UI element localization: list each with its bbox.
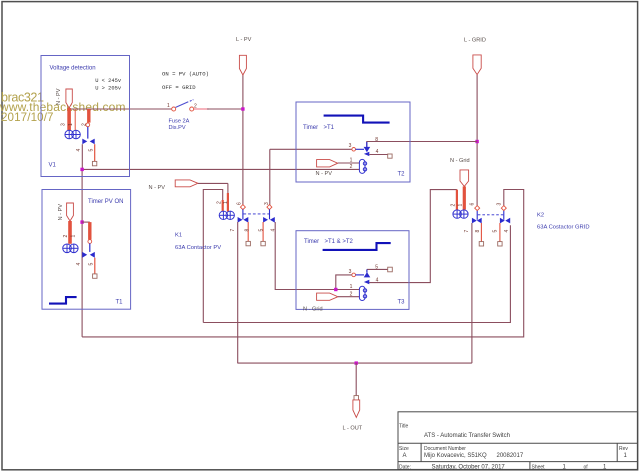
K1 linkage dashed bbox=[243, 213, 269, 215]
svg-text:6: 6 bbox=[237, 202, 243, 205]
svg-text:>T1: >T1 bbox=[324, 125, 335, 131]
junction T3 pin1 bbox=[334, 288, 337, 291]
flag T3 N-Grid bbox=[317, 293, 338, 300]
svg-text:3: 3 bbox=[264, 202, 270, 205]
T1 flag lead bbox=[68, 221, 72, 244]
svg-text:L - OUT: L - OUT bbox=[343, 426, 363, 432]
svg-text:Voltage detection: Voltage detection bbox=[50, 66, 96, 72]
V1 contact circle bbox=[86, 123, 90, 127]
K2 coil pin2 bright lead bbox=[456, 190, 458, 210]
T3 pin 5 stem bbox=[366, 269, 368, 272]
terminal square T2 pin4 bbox=[388, 154, 392, 158]
T3 moving contact arrow bbox=[364, 272, 371, 277]
svg-text:Fuse 2A: Fuse 2A bbox=[169, 119, 190, 125]
svg-text:K1: K1 bbox=[175, 233, 182, 239]
K2 coil pin1 bright lead bbox=[463, 186, 466, 209]
svg-text:4: 4 bbox=[76, 149, 82, 152]
wire T2 pin3 feed horizontal bbox=[270, 148, 352, 150]
K1 contact2 right arrow bbox=[270, 217, 275, 223]
svg-text:K2: K2 bbox=[537, 213, 544, 219]
svg-text:Rev: Rev bbox=[619, 446, 628, 452]
junction T1 input bbox=[80, 220, 83, 223]
K1 contact1 right arrow bbox=[243, 217, 248, 223]
svg-text:4: 4 bbox=[376, 149, 379, 155]
T3 pin 5 wire bbox=[367, 268, 388, 270]
K1 contact2 stem bbox=[269, 209, 271, 219]
svg-text:2: 2 bbox=[194, 104, 197, 110]
title block divider doc/rev bbox=[616, 443, 618, 461]
svg-text:3: 3 bbox=[349, 143, 352, 149]
svg-text:2: 2 bbox=[217, 201, 223, 204]
svg-text:1: 1 bbox=[350, 157, 353, 163]
K1 contact1 stem bbox=[242, 209, 244, 219]
K2 pin 7 wire bbox=[471, 223, 473, 363]
svg-text:N - Grid: N - Grid bbox=[303, 307, 323, 313]
K2 contact1 right arrow bbox=[477, 218, 482, 224]
terminal square K1 pin8 bbox=[246, 241, 250, 245]
T2 contact circle pin 3 bbox=[352, 148, 356, 152]
junction V1 output bbox=[80, 168, 83, 171]
fuse F1 circle 1 bbox=[172, 107, 176, 111]
T2 flag wire pin1 bbox=[338, 162, 360, 164]
svg-text:Document Number: Document Number bbox=[424, 446, 466, 452]
wire T3 pin4 to K2 coil pin2 bbox=[369, 190, 457, 283]
terminal square T1 bbox=[93, 274, 97, 278]
svg-text:3: 3 bbox=[61, 123, 67, 126]
T2 pin 4 arrow bbox=[364, 152, 369, 156]
wire L-PV vertical bbox=[242, 75, 244, 205]
svg-text:2017/10/7: 2017/10/7 bbox=[1, 111, 54, 124]
V1 contact right arrow bbox=[90, 139, 95, 145]
V1 flag lead bbox=[67, 108, 71, 130]
coil K2 bbox=[453, 210, 468, 218]
svg-text:N - PV: N - PV bbox=[56, 88, 62, 105]
svg-text:V1: V1 bbox=[49, 163, 57, 169]
V1 coil pin1 lead to wire bbox=[74, 109, 76, 130]
svg-text:2: 2 bbox=[350, 291, 353, 297]
svg-text:63A Costactor GRID: 63A Costactor GRID bbox=[537, 225, 590, 231]
T3 contact blue bar bbox=[356, 274, 365, 276]
T2 pin 4 wire bbox=[369, 154, 387, 156]
svg-text:7: 7 bbox=[464, 230, 470, 233]
K2 contact1 left arrow bbox=[472, 218, 477, 224]
svg-text:L - GRID: L - GRID bbox=[464, 38, 486, 44]
svg-text:7: 7 bbox=[230, 229, 236, 232]
svg-text:8: 8 bbox=[475, 230, 481, 233]
wire V1 junction to T2 coil bbox=[82, 168, 359, 170]
svg-text:Sheet: Sheet bbox=[532, 464, 546, 470]
flag L-PV bbox=[239, 55, 246, 75]
K1 coil pin1 bright lead bbox=[227, 183, 229, 196]
flag V1 N-PV bbox=[66, 89, 72, 108]
wire L-GRID vertical bbox=[476, 75, 478, 206]
K1 coil pin2 bright lead bbox=[222, 200, 224, 212]
svg-text:8: 8 bbox=[244, 229, 250, 232]
coil T3 bbox=[359, 286, 366, 300]
T1 jog wire bbox=[82, 221, 90, 223]
svg-text:OFF = GRID: OFF = GRID bbox=[162, 84, 196, 91]
svg-text:5: 5 bbox=[375, 264, 378, 270]
wire T2 pin8 to L-GRID junction bbox=[367, 142, 478, 148]
T1 contact blue stem bbox=[89, 243, 91, 252]
svg-text:N - PV: N - PV bbox=[149, 185, 166, 191]
flag T2 N-PV bbox=[317, 160, 338, 167]
wire fuse to L-PV junction bbox=[194, 108, 209, 110]
svg-text:5: 5 bbox=[259, 229, 265, 232]
junction L-PV bbox=[241, 107, 244, 110]
title block divider date/sheet bbox=[529, 462, 531, 470]
svg-text:A: A bbox=[403, 453, 407, 459]
title block divider size/doc bbox=[420, 443, 422, 461]
svg-text:Timer: Timer bbox=[304, 239, 319, 245]
T1 contact left arrow bbox=[82, 252, 87, 258]
svg-text:T1: T1 bbox=[116, 300, 124, 306]
V1 contact blue stem bbox=[87, 127, 89, 139]
coil T1 bbox=[63, 244, 78, 253]
wire L-PV main horizontal left segment bbox=[69, 108, 172, 110]
terminal square L-OUT bbox=[354, 396, 359, 401]
coil T2 bbox=[359, 159, 366, 173]
svg-text:1: 1 bbox=[167, 103, 170, 109]
K2 linkage dashed bbox=[478, 214, 503, 216]
terminal square T3 pin5 bbox=[388, 267, 393, 272]
wire bus322 K1 to K2 pin4 bbox=[203, 225, 510, 322]
T1 contact right arrow bbox=[90, 252, 95, 258]
wire L-OUT drop bbox=[355, 363, 357, 396]
K2 contact2 diamond pin3 bbox=[501, 206, 506, 211]
svg-text:1: 1 bbox=[71, 235, 77, 238]
svg-text:1: 1 bbox=[458, 204, 464, 207]
svg-text:Dis.PV: Dis.PV bbox=[169, 125, 186, 131]
fuse F1 circle 2 bbox=[190, 107, 194, 111]
T1 terminal lead bbox=[94, 258, 96, 274]
coil V1 bbox=[65, 130, 80, 139]
T3 flag wire pin2 bbox=[338, 296, 360, 298]
svg-text:U > 205v: U > 205v bbox=[95, 86, 122, 92]
K1 contact1 left arrow bbox=[238, 217, 243, 223]
svg-text:L - PV: L - PV bbox=[236, 37, 252, 43]
svg-text:Mijo Kovacevic, S51KQ: Mijo Kovacevic, S51KQ bbox=[424, 453, 487, 459]
svg-text:4: 4 bbox=[271, 229, 277, 232]
flag N-Grid bbox=[460, 170, 469, 187]
fuse F1 lever bbox=[176, 102, 189, 108]
svg-text:4: 4 bbox=[504, 230, 510, 233]
wire K1 coil pin2 routing to bus322 bbox=[203, 190, 222, 323]
svg-text:3: 3 bbox=[349, 269, 352, 275]
terminal square K2 pin8 bbox=[479, 242, 483, 246]
K2 contact2 right arrow bbox=[505, 218, 510, 224]
svg-text:U < 245v: U < 245v bbox=[95, 78, 122, 84]
T3 contact circle pin 3 bbox=[352, 273, 356, 277]
svg-text:ON = PV (AUTO): ON = PV (AUTO) bbox=[162, 71, 209, 78]
junction L-OUT bbox=[355, 361, 358, 364]
relay V1 voltage detection box bbox=[41, 56, 130, 177]
svg-text:Timer PV ON: Timer PV ON bbox=[88, 199, 123, 205]
T2 pin 8 stem bbox=[366, 142, 368, 148]
svg-text:N - PV: N - PV bbox=[316, 171, 333, 177]
T3 pin 4 arrow bbox=[364, 280, 369, 284]
svg-text:5: 5 bbox=[89, 263, 95, 266]
svg-text:Date:: Date: bbox=[399, 464, 411, 470]
svg-text:20082017: 20082017 bbox=[497, 453, 524, 459]
terminal square K2 pin5 bbox=[498, 242, 502, 246]
svg-text:6: 6 bbox=[470, 203, 476, 206]
svg-text:1: 1 bbox=[223, 201, 229, 204]
K1 contact2 left arrow bbox=[263, 217, 268, 223]
K1 contact2 diamond pin3 bbox=[267, 205, 272, 210]
flag N-PV net bbox=[175, 180, 198, 187]
T1 waveform bbox=[49, 297, 77, 304]
wire V1 junction down through T1 to bottom bus bbox=[81, 170, 83, 337]
K1 pin 7 wire bbox=[237, 222, 239, 363]
svg-text:5: 5 bbox=[492, 230, 498, 233]
K2 contact2 stem bbox=[503, 211, 505, 220]
svg-text:ATS - Automatic Transfer Switc: ATS - Automatic Transfer Switch bbox=[424, 433, 510, 439]
svg-text:Saturday, October 07, 2017: Saturday, October 07, 2017 bbox=[432, 464, 506, 470]
T1 contact circle bbox=[88, 240, 92, 244]
svg-text:2: 2 bbox=[350, 164, 353, 170]
svg-text:N - Grid: N - Grid bbox=[450, 158, 470, 164]
svg-text:2: 2 bbox=[63, 235, 69, 238]
T3 waveform bbox=[323, 243, 391, 250]
K2 contact2 left arrow bbox=[500, 218, 505, 224]
flag L-GRID bbox=[473, 55, 481, 75]
K1 pin 5 wire bbox=[262, 222, 264, 241]
T2 waveform bbox=[324, 116, 390, 123]
svg-text:Title: Title bbox=[399, 424, 408, 430]
T3 pin3 branch wire bbox=[336, 275, 352, 290]
svg-text:4: 4 bbox=[376, 277, 379, 283]
K1 pin 8 wire bbox=[247, 222, 249, 241]
wire K1 contact3 feed vertical bbox=[269, 149, 271, 205]
svg-text:1: 1 bbox=[350, 284, 353, 290]
svg-text:63A Contactor PV: 63A Contactor PV bbox=[175, 245, 221, 251]
V1 contact left wire down bbox=[81, 144, 83, 169]
title block outer rect bbox=[398, 412, 638, 470]
terminal square K1 pin5 bbox=[261, 241, 265, 245]
svg-text:Timer: Timer bbox=[303, 125, 318, 131]
svg-text:4: 4 bbox=[76, 263, 82, 266]
svg-text:>T1 & >T2: >T1 & >T2 bbox=[325, 239, 354, 245]
T1 contact lead bbox=[88, 222, 91, 240]
T2 contact blue bar bbox=[356, 148, 365, 150]
K2 pin 5 wire bbox=[499, 223, 501, 242]
K2 pin 8 wire bbox=[480, 223, 482, 242]
junction L-GRID bbox=[475, 140, 478, 143]
T2 moving contact arrow bbox=[364, 147, 371, 152]
wire N-PV flag to K1 coil pin1 bbox=[198, 182, 228, 184]
svg-text:T3: T3 bbox=[398, 300, 406, 306]
wire bus363 K1 pin7 to K2 pin7 bbox=[237, 362, 472, 364]
svg-text:8: 8 bbox=[375, 137, 378, 143]
svg-text:of: of bbox=[584, 464, 589, 470]
flag T1 N-PV bbox=[67, 203, 74, 221]
V1 contact left arrow bbox=[82, 139, 87, 145]
svg-text:3: 3 bbox=[496, 203, 502, 206]
svg-text:2: 2 bbox=[451, 204, 457, 207]
flag L-OUT bbox=[353, 400, 360, 418]
K1 contact1 diamond pin6 bbox=[240, 205, 245, 210]
timer T3 box bbox=[296, 231, 409, 310]
V1 contact lead from wire bbox=[87, 109, 90, 123]
svg-text:1: 1 bbox=[68, 123, 74, 126]
svg-text:Size: Size bbox=[399, 446, 409, 452]
wire bus337 T1 output to K2 contact3 bbox=[82, 190, 524, 337]
svg-text:T2: T2 bbox=[398, 172, 406, 178]
K2 contact1 diamond pin6 bbox=[475, 206, 480, 211]
timer T1 box bbox=[42, 190, 131, 310]
timer T2 box bbox=[296, 102, 410, 182]
K2 contact1 stem bbox=[476, 211, 478, 220]
title block row line 1 bbox=[398, 442, 638, 444]
wire K1 pin4 to T3 pin1 bbox=[275, 222, 359, 290]
svg-text:N - PV: N - PV bbox=[58, 204, 64, 221]
title block row line 2 bbox=[398, 461, 638, 463]
V1 terminal lead bbox=[94, 144, 96, 161]
svg-text:5: 5 bbox=[89, 149, 95, 152]
terminal square V1 bbox=[92, 161, 96, 165]
coil K1 bbox=[219, 211, 234, 219]
